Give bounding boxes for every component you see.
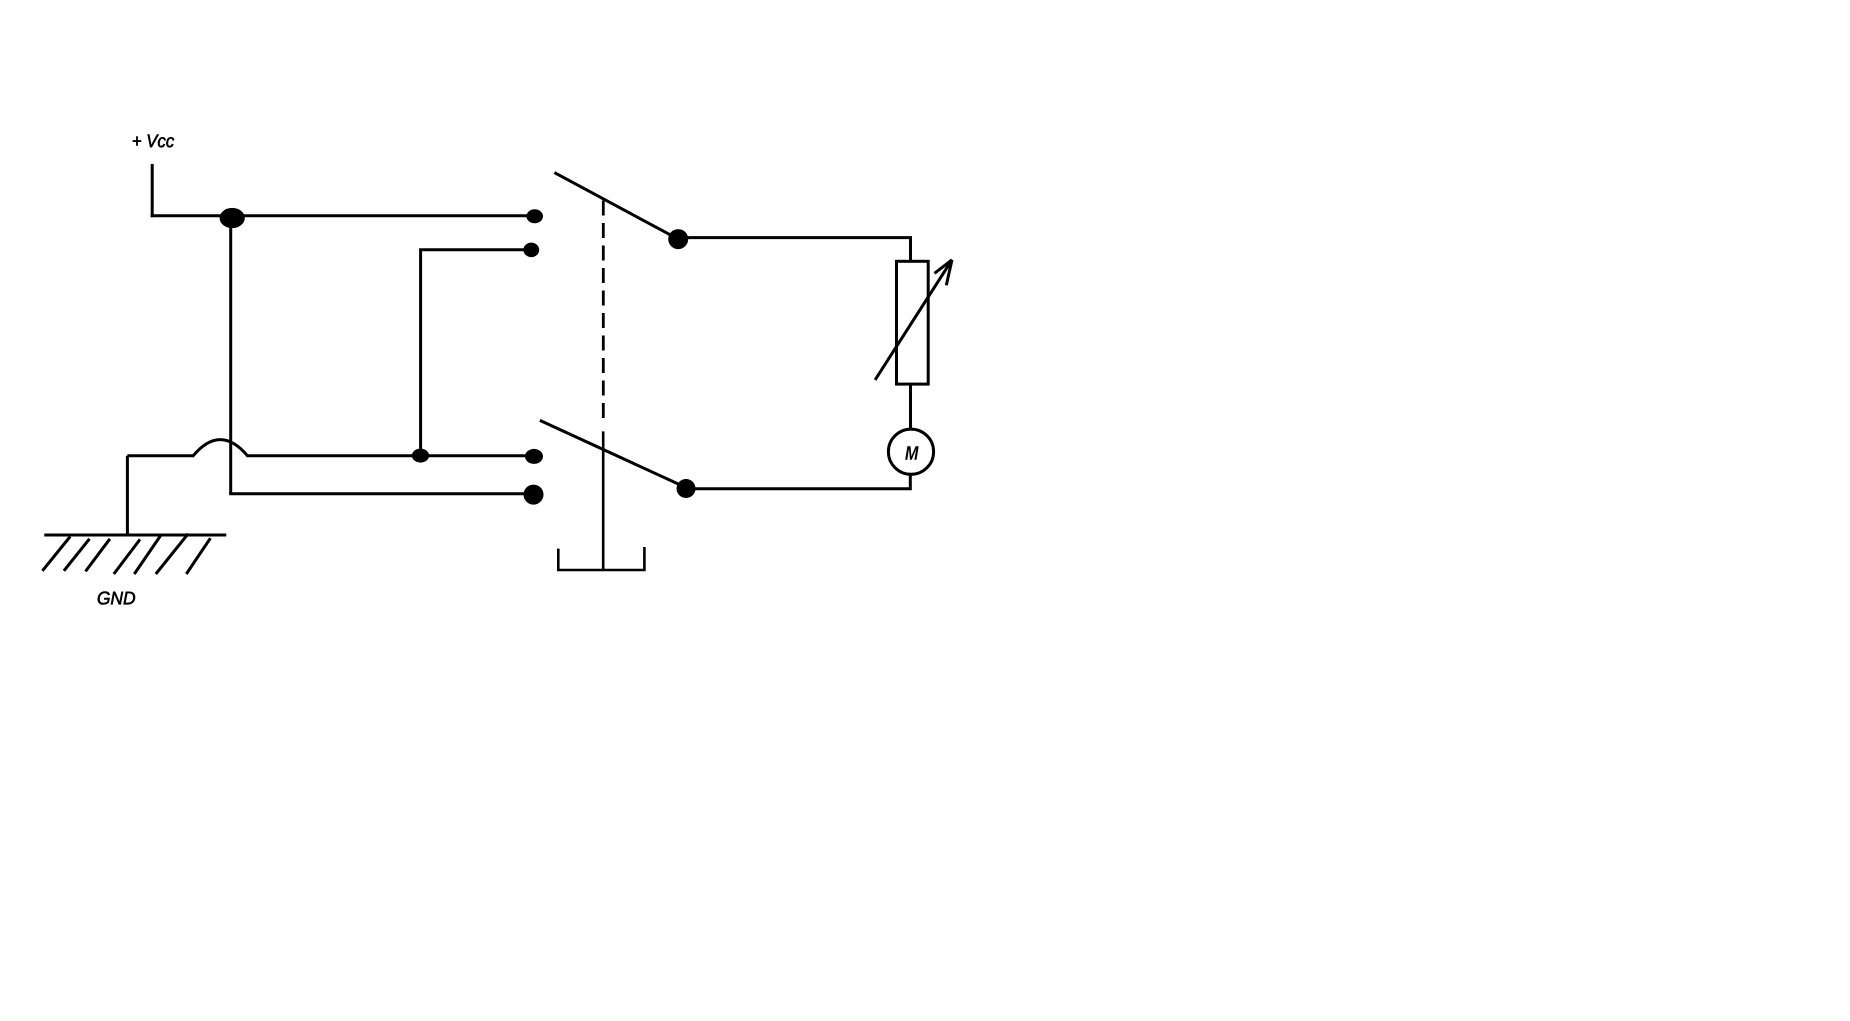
- switch S1a throw contact dot: [668, 229, 688, 249]
- switch linkage dashed line: [602, 201, 605, 420]
- switch actuator rod: [602, 431, 605, 570]
- ground symbol: [42, 534, 226, 574]
- junction dot B on middle rail: [412, 449, 429, 463]
- ground label GND: [98, 592, 135, 605]
- wire Vcc stub vertical: [151, 164, 154, 217]
- switch S1b arm: [540, 420, 687, 488]
- actuator bracket: [558, 547, 644, 570]
- wire middle rail with hop over vertical: [127, 440, 534, 456]
- wire bottom rail to pole 4: [229, 492, 533, 495]
- motor body circle: [888, 429, 933, 474]
- wire pole-2 branch (corner at 420,250): [421, 250, 532, 456]
- motor label M: [905, 446, 919, 460]
- junction dot A on top rail: [220, 208, 245, 228]
- pole contact dot 4: [524, 485, 544, 505]
- pole contact dot 2: [523, 243, 539, 258]
- node +Vcc label: [133, 135, 174, 148]
- switch S1a arm: [554, 173, 678, 240]
- switch S1b throw contact dot: [677, 479, 696, 498]
- pole contact dot 3: [525, 449, 543, 464]
- wire top rail (Vcc to pole 1): [151, 214, 534, 217]
- wire ground drop: [126, 456, 129, 535]
- rheostat body: [897, 261, 929, 384]
- wire rheostat to motor: [909, 384, 912, 429]
- wire vertical drop from junction A: [229, 216, 232, 494]
- wire motor to throw 2: [686, 474, 910, 489]
- wire throw 1 to rheostat: [678, 238, 910, 262]
- pole contact dot 1: [526, 209, 543, 223]
- rheostat arrow: [875, 260, 952, 380]
